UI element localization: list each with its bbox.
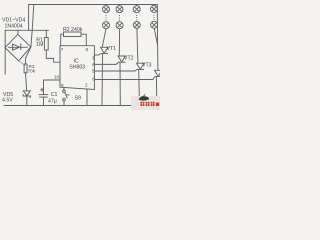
svg-text:4.5V: 4.5V [2, 97, 13, 103]
svg-text:3: 3 [92, 55, 95, 60]
svg-text:VD1~VD4: VD1~VD4 [2, 17, 25, 23]
svg-text:SH803: SH803 [69, 65, 85, 71]
svg-text:47μ: 47μ [48, 98, 57, 104]
svg-text:IC: IC [74, 59, 79, 65]
svg-text:VT1: VT1 [107, 46, 117, 52]
svg-text:7: 7 [61, 47, 64, 52]
svg-text:4: 4 [92, 62, 95, 67]
svg-text:VT2: VT2 [124, 56, 134, 62]
svg-text:2: 2 [85, 83, 88, 88]
svg-text:1M: 1M [36, 42, 43, 48]
svg-text:C1: C1 [51, 92, 58, 98]
svg-text:S9: S9 [75, 96, 81, 102]
svg-text:5: 5 [92, 68, 95, 73]
svg-text:10: 10 [54, 74, 60, 79]
svg-text:R2 240k: R2 240k [63, 27, 83, 33]
svg-text:9: 9 [61, 83, 64, 88]
svg-text:70k: 70k [28, 68, 36, 73]
svg-text:VT3: VT3 [142, 62, 152, 68]
svg-text:1N4004: 1N4004 [5, 24, 23, 30]
svg-text:8: 8 [86, 47, 89, 52]
svg-text:6: 6 [92, 76, 95, 81]
